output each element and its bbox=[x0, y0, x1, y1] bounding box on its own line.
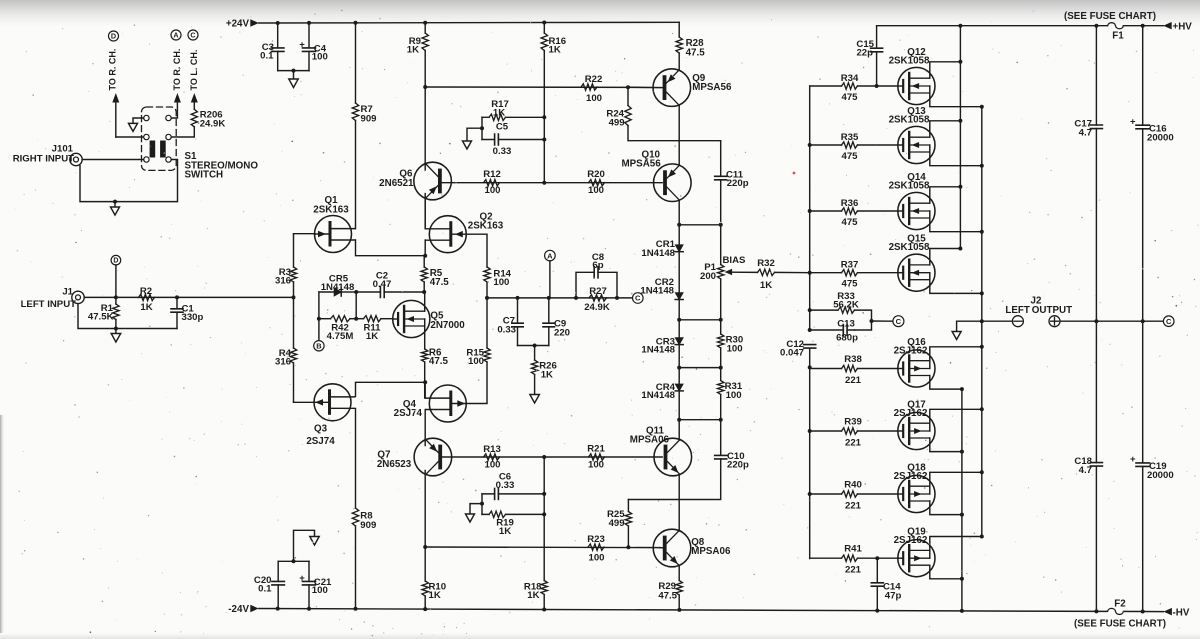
capacitor C2 bbox=[356, 291, 424, 293]
svg-text:221: 221 bbox=[845, 565, 862, 576]
resistor R40 bbox=[810, 493, 842, 495]
wire Q5 source bbox=[424, 326, 426, 349]
wire J101 to switch bbox=[82, 159, 144, 161]
wire Q15 source bbox=[930, 280, 982, 294]
capacitor C10 bbox=[628, 420, 720, 500]
node D to right channel (top-left) bbox=[109, 31, 119, 41]
left scan shadow bbox=[0, 415, 5, 639]
output wire right bbox=[1060, 320, 1163, 322]
ground above C20/C21 bbox=[294, 530, 315, 561]
svg-text:47.5K: 47.5K bbox=[88, 311, 114, 322]
svg-text:2SK163: 2SK163 bbox=[313, 204, 349, 215]
jfet Q1 2SK163 bbox=[315, 216, 352, 253]
wire Q17 source bbox=[930, 409, 982, 423]
capacitor C12 (series in bus) bbox=[804, 345, 816, 349]
svg-text:2SJ162: 2SJ162 bbox=[894, 346, 928, 357]
wire Q19 source bbox=[930, 537, 982, 551]
svg-text:47p: 47p bbox=[885, 590, 902, 601]
connector J101 right input bbox=[70, 153, 82, 165]
diode CR2 1N4148 bbox=[675, 293, 683, 300]
svg-text:2SJ74: 2SJ74 bbox=[306, 436, 335, 447]
wire C7 C9 common bbox=[518, 345, 549, 347]
svg-text:C: C bbox=[190, 31, 195, 40]
connector J2 plus bbox=[1049, 316, 1060, 327]
capacitor C9 bbox=[548, 298, 550, 346]
svg-text:24.9K: 24.9K bbox=[200, 119, 226, 130]
wire R17/C5 junctions bbox=[543, 117, 545, 182]
wire R17 C5 left vertical bbox=[481, 117, 483, 139]
svg-text:+24V: +24V bbox=[226, 19, 250, 30]
resistor R4 bbox=[290, 348, 296, 363]
wire Q8 base bbox=[660, 547, 663, 549]
svg-text:2N6523: 2N6523 bbox=[377, 459, 412, 470]
node C output bbox=[1163, 316, 1174, 327]
wire Q3 source to node bbox=[356, 382, 426, 396]
driver base line wire R13 R21 bbox=[442, 456, 663, 458]
resistor R38 bbox=[810, 368, 842, 370]
capacitor C4 (polarized) bbox=[308, 23, 310, 71]
resistor R32 bbox=[758, 269, 775, 275]
svg-text:R34: R34 bbox=[841, 73, 859, 84]
svg-text:2N6521: 2N6521 bbox=[379, 178, 414, 189]
resistor R13 bbox=[484, 454, 500, 460]
svg-text:0.47: 0.47 bbox=[373, 279, 392, 290]
mosfet Q14 2SK1058 bbox=[898, 192, 935, 229]
capacitor C16 (polarized) bbox=[1142, 26, 1144, 322]
wire R206 to switch bbox=[171, 127, 194, 137]
wire Q6 collector bbox=[424, 87, 426, 170]
wire Q12 source bbox=[930, 93, 982, 107]
mosfet Q19 2SJ162 bbox=[898, 540, 935, 577]
top scan shadow bbox=[0, 0, 1200, 26]
resistor R16 bbox=[543, 22, 545, 117]
svg-text:1K: 1K bbox=[407, 45, 419, 56]
svg-text:BIAS: BIAS bbox=[723, 255, 747, 266]
svg-text:0.33: 0.33 bbox=[493, 146, 512, 157]
svg-text:0.1: 0.1 bbox=[258, 584, 272, 595]
wire node A to line bbox=[549, 261, 551, 298]
wire C20 C21 common bbox=[278, 560, 309, 562]
upper cascode line wire R22 bbox=[425, 86, 661, 88]
bottom scan shadow bbox=[0, 633, 1200, 639]
+HV drain bus wire bbox=[959, 26, 961, 249]
svg-text:Q3: Q3 bbox=[314, 424, 328, 435]
wire Q9 collector to Q10 bbox=[678, 105, 680, 165]
svg-text:22p: 22p bbox=[856, 47, 873, 58]
ground at J101 loop bbox=[114, 202, 116, 207]
svg-text:1K: 1K bbox=[429, 590, 441, 601]
transistor Q6 2N6521 bbox=[414, 162, 452, 200]
+HV arrow bbox=[1163, 22, 1172, 30]
wire R42 to R11 bbox=[350, 318, 364, 320]
wire R11 to Q5 gate bbox=[381, 318, 393, 320]
node D at left input bbox=[111, 255, 121, 265]
mosfet Q12 2SK1058 bbox=[898, 67, 935, 104]
svg-text:100: 100 bbox=[484, 185, 500, 196]
svg-text:+HV: +HV bbox=[1173, 22, 1193, 33]
resistor R26 bbox=[534, 346, 536, 361]
svg-text:R38: R38 bbox=[844, 354, 862, 365]
svg-text:+: + bbox=[299, 573, 305, 584]
resistor R29 bbox=[678, 566, 680, 581]
svg-text:R12: R12 bbox=[483, 169, 501, 180]
svg-text:1N4148: 1N4148 bbox=[641, 345, 675, 356]
wire Q6 emitter to Q2 bbox=[424, 194, 426, 229]
resistor R41 bbox=[810, 557, 842, 559]
svg-text:475: 475 bbox=[841, 92, 858, 103]
resistor R14 bbox=[484, 267, 490, 282]
svg-text:221: 221 bbox=[845, 501, 862, 512]
node A bbox=[545, 250, 556, 261]
wire Q16 source bbox=[930, 347, 982, 361]
wire Q17 drain bbox=[930, 438, 962, 452]
svg-text:MPSA06: MPSA06 bbox=[691, 546, 731, 557]
scan noise bbox=[770, 18, 773, 21]
wire Q11 collector up bbox=[678, 420, 680, 440]
resistor R23 bbox=[588, 544, 604, 550]
wire Q1 source to node bbox=[356, 240, 426, 256]
svg-text:R32: R32 bbox=[757, 258, 775, 269]
resistor R12 bbox=[484, 180, 500, 186]
wire Q10 collector down bbox=[678, 200, 680, 224]
svg-text:2SK163: 2SK163 bbox=[468, 221, 504, 232]
resistor R9 bbox=[424, 23, 426, 88]
node C feedback bbox=[633, 293, 644, 304]
svg-text:C: C bbox=[896, 317, 902, 326]
capacitor C3 bbox=[277, 23, 279, 71]
resistor R11 bbox=[364, 316, 382, 322]
svg-text:4.75M: 4.75M bbox=[327, 331, 354, 342]
svg-text:220: 220 bbox=[554, 327, 570, 338]
svg-text:200: 200 bbox=[700, 271, 716, 282]
capacitor C6 bbox=[482, 493, 544, 495]
wire Q14 drain bbox=[930, 187, 961, 203]
mosfet Q18 2SJ162 bbox=[898, 475, 935, 512]
svg-text:OUTPUT: OUTPUT bbox=[1032, 305, 1072, 316]
transistor Q8 MPSA06 bbox=[653, 529, 691, 567]
mosfet Q5 2N7000 bbox=[393, 300, 430, 337]
resistor R24 bbox=[627, 87, 629, 105]
resistor R19 bbox=[482, 513, 544, 515]
svg-text:100: 100 bbox=[484, 459, 500, 470]
diode CR4 1N4148 bbox=[678, 368, 680, 385]
svg-text:MPSA06: MPSA06 bbox=[630, 434, 670, 445]
wire Q12 drain bbox=[930, 62, 961, 78]
svg-text:2SJ162: 2SJ162 bbox=[894, 408, 928, 419]
resistor R3 bbox=[290, 267, 296, 282]
resistor R5 bbox=[423, 256, 425, 267]
svg-text:R36: R36 bbox=[841, 198, 859, 209]
svg-text:R22: R22 bbox=[585, 74, 603, 85]
bias chain tie 3 bbox=[679, 367, 721, 369]
svg-text:MPSA56: MPSA56 bbox=[692, 82, 732, 93]
resistor R27 bbox=[589, 295, 607, 301]
svg-text:6p: 6p bbox=[592, 260, 603, 271]
svg-text:+: + bbox=[1130, 116, 1136, 127]
svg-text:100: 100 bbox=[312, 52, 328, 63]
transistor Q7 2N6523 bbox=[414, 438, 452, 476]
svg-text:R40: R40 bbox=[844, 480, 862, 491]
svg-text:F2: F2 bbox=[1114, 599, 1126, 610]
gate bus wire R3 R4 bbox=[293, 234, 295, 403]
svg-text:+: + bbox=[1130, 454, 1136, 465]
switch S1 poles bbox=[150, 141, 156, 158]
svg-text:475: 475 bbox=[841, 151, 858, 162]
ground below R1 bbox=[115, 329, 117, 334]
svg-text:330p: 330p bbox=[182, 312, 204, 323]
svg-text:C5: C5 bbox=[496, 121, 509, 132]
svg-text:100: 100 bbox=[586, 93, 602, 104]
bias chain tie 2 bbox=[679, 319, 721, 321]
svg-text:4.7: 4.7 bbox=[1079, 465, 1092, 476]
node B bbox=[314, 341, 324, 351]
wire Q19 drain bbox=[930, 565, 962, 579]
svg-text:47.5: 47.5 bbox=[429, 356, 449, 367]
ground below C3/C4 bbox=[293, 71, 295, 79]
svg-text:47.5: 47.5 bbox=[658, 590, 677, 601]
wire Q1 gate bbox=[294, 233, 315, 235]
resistor R20 bbox=[589, 180, 605, 186]
svg-text:D: D bbox=[111, 32, 116, 41]
wire Q5 drain bbox=[424, 292, 426, 311]
wire node D to switch pin bbox=[116, 136, 144, 138]
wire Q7 emitter to Q4 bbox=[424, 440, 426, 446]
node C to left channel (top-left) bbox=[188, 30, 198, 40]
svg-text:4.7: 4.7 bbox=[1079, 127, 1092, 138]
capacitor C20 bbox=[277, 561, 279, 608]
svg-text:2SJ162: 2SJ162 bbox=[894, 535, 928, 546]
resistor R35 bbox=[810, 144, 842, 146]
svg-text:316: 316 bbox=[275, 275, 291, 286]
svg-text:(SEE FUSE CHART): (SEE FUSE CHART) bbox=[1074, 619, 1166, 630]
svg-text:+: + bbox=[299, 39, 305, 50]
svg-text:1K: 1K bbox=[499, 526, 511, 537]
source bus wire (output) bbox=[981, 107, 983, 537]
-24V / -HV bottom rail wire bbox=[259, 609, 1164, 612]
capacitor C13 bbox=[810, 329, 855, 331]
resistor R34 bbox=[810, 85, 842, 87]
jfet Q4 2SJ74 bbox=[429, 385, 466, 422]
svg-text:20000: 20000 bbox=[1147, 133, 1174, 144]
feedback line wire bbox=[487, 297, 633, 299]
svg-text:R20: R20 bbox=[587, 169, 605, 180]
svg-text:100: 100 bbox=[468, 356, 484, 367]
resistor R1 bbox=[115, 297, 117, 304]
wire C3 C4 common bbox=[278, 70, 309, 72]
svg-text:R23: R23 bbox=[587, 534, 605, 545]
svg-text:100: 100 bbox=[312, 585, 328, 596]
resistor R42 bbox=[319, 318, 331, 320]
ground at C6/R19 bbox=[470, 504, 482, 514]
jfet Q3 2SJ74 bbox=[314, 384, 351, 421]
svg-text:1K: 1K bbox=[527, 590, 539, 601]
svg-text:-HV: -HV bbox=[1173, 608, 1190, 619]
svg-text:47.5: 47.5 bbox=[430, 277, 450, 288]
svg-text:R27: R27 bbox=[589, 286, 607, 297]
svg-text:TO R. CH.: TO R. CH. bbox=[107, 49, 117, 91]
svg-text:R41: R41 bbox=[844, 544, 862, 555]
transistor Q11 MPSA06 bbox=[654, 438, 692, 476]
svg-text:100: 100 bbox=[588, 185, 604, 196]
svg-text:J1: J1 bbox=[62, 286, 73, 297]
resistor R18 bbox=[541, 581, 547, 595]
svg-text:R21: R21 bbox=[587, 444, 605, 455]
svg-text:F1: F1 bbox=[1112, 31, 1124, 42]
svg-text:475: 475 bbox=[841, 279, 858, 290]
svg-text:0.33: 0.33 bbox=[497, 325, 516, 336]
gate bus upper wire bbox=[809, 86, 811, 330]
svg-text:1K: 1K bbox=[366, 331, 378, 342]
capacitor C8 loop bbox=[576, 272, 617, 298]
svg-text:2SJ74: 2SJ74 bbox=[394, 408, 423, 419]
svg-text:100: 100 bbox=[727, 344, 743, 355]
jfet Q2 2SK163 bbox=[429, 216, 466, 253]
wire Q11 emitter to Q8 bbox=[678, 475, 680, 532]
svg-text:1N4148: 1N4148 bbox=[640, 285, 674, 296]
output wire to J2 bbox=[982, 320, 1013, 322]
capacitor C19 (polarized) bbox=[1142, 321, 1144, 611]
resistor R33 bbox=[810, 310, 872, 330]
svg-text:SWITCH: SWITCH bbox=[185, 170, 224, 181]
wire Q4 drain down bbox=[424, 410, 426, 440]
connector J1 left input bbox=[72, 291, 84, 303]
svg-text:221: 221 bbox=[845, 438, 862, 449]
svg-text:-24V: -24V bbox=[228, 604, 249, 615]
wire Q9 base bbox=[628, 86, 663, 88]
svg-text:R39: R39 bbox=[844, 417, 862, 428]
svg-text:475: 475 bbox=[841, 217, 858, 228]
svg-text:20000: 20000 bbox=[1147, 470, 1174, 481]
mosfet Q16 2SJ162 bbox=[898, 350, 935, 387]
svg-text:1N4148: 1N4148 bbox=[641, 390, 675, 401]
ground at output bbox=[957, 321, 982, 331]
svg-text:R13: R13 bbox=[483, 444, 501, 455]
bias chain tie 4 bbox=[679, 419, 721, 421]
svg-text:47.5: 47.5 bbox=[686, 47, 706, 58]
svg-text:220p: 220p bbox=[727, 460, 749, 471]
svg-text:1K: 1K bbox=[549, 45, 561, 56]
resistor R206 bbox=[191, 109, 197, 127]
wire C6 R19 left vertical bbox=[481, 494, 483, 515]
svg-text:100: 100 bbox=[726, 390, 742, 401]
svg-text:R37: R37 bbox=[841, 260, 859, 271]
capacitor C11 bbox=[720, 141, 722, 225]
svg-text:100: 100 bbox=[493, 277, 509, 288]
connector J2 minus bbox=[1012, 316, 1023, 327]
svg-text:1K: 1K bbox=[140, 302, 152, 313]
resistor R37 bbox=[810, 272, 842, 274]
wire Q13 drain bbox=[930, 121, 961, 137]
svg-text:R35: R35 bbox=[841, 132, 859, 143]
capacitor C17 bbox=[1095, 26, 1097, 322]
resistor R15 bbox=[486, 298, 488, 348]
mosfet Q17 2SJ162 bbox=[898, 412, 935, 449]
svg-text:2SJ162: 2SJ162 bbox=[894, 471, 928, 482]
svg-text:1K: 1K bbox=[541, 369, 553, 380]
resistor R28 bbox=[678, 22, 680, 37]
capacitor C15 bbox=[876, 26, 878, 86]
svg-text:A: A bbox=[547, 251, 553, 260]
resistor R25 bbox=[627, 500, 629, 512]
svg-text:100: 100 bbox=[588, 553, 604, 564]
svg-text:MPSA56: MPSA56 bbox=[621, 158, 661, 169]
resistor R2 bbox=[139, 294, 155, 300]
svg-text:316: 316 bbox=[275, 356, 291, 367]
svg-text:499: 499 bbox=[609, 117, 625, 128]
svg-text:1N4148: 1N4148 bbox=[321, 282, 355, 293]
ground at R17/C5 bbox=[467, 128, 482, 141]
capacitor C21 (polarized) bbox=[308, 561, 310, 608]
wire Q2 source down bbox=[424, 240, 426, 256]
mosfet Q15 2SK1058 bbox=[898, 254, 935, 291]
potentiometer P1 bias bbox=[720, 225, 722, 265]
node A to right channel (top-left) bbox=[171, 30, 181, 40]
svg-text:(SEE FUSE CHART): (SEE FUSE CHART) bbox=[1064, 11, 1156, 22]
wire Q16 drain bbox=[930, 376, 962, 390]
diode CR1 1N4148 bbox=[678, 225, 680, 245]
capacitor C14 bbox=[876, 558, 878, 610]
wire Q7 collector down bbox=[424, 471, 426, 548]
svg-text:C: C bbox=[1166, 317, 1172, 326]
svg-text:680p: 680p bbox=[836, 332, 858, 343]
fuse F1 bbox=[1108, 23, 1124, 29]
bias chain tie 1 bbox=[679, 224, 721, 226]
capacitor C1 bbox=[176, 297, 178, 328]
svg-text:2SK1058: 2SK1058 bbox=[889, 55, 930, 66]
svg-text:0.047: 0.047 bbox=[780, 348, 804, 359]
capacitor C5 bbox=[482, 139, 544, 141]
diode CR5 1N4148 bbox=[319, 291, 334, 293]
svg-text:1N4148: 1N4148 bbox=[641, 248, 675, 259]
switch S1 body (dashed) bbox=[142, 107, 177, 170]
+24V rail wire bbox=[259, 21, 679, 24]
svg-text:D: D bbox=[113, 258, 118, 265]
svg-text:499: 499 bbox=[609, 518, 625, 529]
node C bias tap bbox=[872, 320, 894, 322]
svg-text:LEFT: LEFT bbox=[1005, 305, 1030, 316]
left input wire bbox=[84, 296, 293, 298]
resistor R10 bbox=[424, 547, 426, 609]
wire Q4 source up bbox=[424, 382, 426, 398]
second stage base line wire R12 R20 bbox=[441, 182, 662, 184]
svg-text:A: A bbox=[173, 31, 178, 40]
svg-text:56.2K: 56.2K bbox=[833, 300, 859, 311]
resistor R17 bbox=[482, 116, 544, 118]
svg-text:24.9K: 24.9K bbox=[584, 302, 610, 313]
svg-text:0.1: 0.1 bbox=[260, 50, 274, 61]
mosfet Q13 2SK1058 bbox=[898, 126, 935, 163]
resistor R6 bbox=[422, 349, 428, 362]
ground below R26 bbox=[530, 395, 540, 404]
input ground loop wire bbox=[78, 304, 177, 329]
wire Q18 source bbox=[930, 472, 982, 486]
resistor R7 and drain wire Q1 bbox=[355, 22, 357, 228]
transistor Q9 MPSA56 bbox=[653, 69, 691, 107]
fuse F2 bbox=[1108, 608, 1124, 614]
svg-text:220p: 220p bbox=[727, 178, 749, 189]
switch S1 pins bbox=[144, 115, 149, 120]
svg-text:909: 909 bbox=[360, 520, 376, 531]
diode CR3 1N4148 bbox=[678, 320, 680, 338]
-HV drain bus wire bbox=[961, 389, 963, 611]
+HV rail wire bbox=[877, 25, 1164, 27]
transistor Q10 MPSA56 bbox=[654, 164, 692, 202]
svg-text:100: 100 bbox=[588, 460, 604, 471]
svg-text:221: 221 bbox=[845, 375, 862, 386]
resistor R36 bbox=[810, 210, 842, 212]
wire Q2 gate to R14 bbox=[466, 234, 487, 267]
svg-text:C13: C13 bbox=[837, 318, 855, 329]
